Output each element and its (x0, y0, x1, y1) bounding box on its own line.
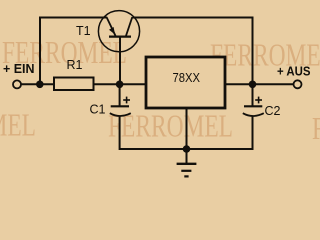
wire ground rail right / C2 lower lead (187, 116, 253, 150)
transistor T1 circle (98, 11, 139, 52)
wire top right segment (133, 18, 253, 85)
resistor R1 box (54, 78, 94, 91)
svg-text:T1: T1 (76, 24, 91, 38)
wire C2 upper lead (252, 84, 254, 106)
capacitor C1 curved plate (110, 113, 131, 116)
junction dot base/C1 (116, 81, 124, 89)
svg-text:C2: C2 (265, 104, 281, 118)
capacitor C1 top plate (111, 105, 129, 107)
svg-text:+ EIN: + EIN (3, 62, 35, 76)
terminal + AUS circle (294, 80, 302, 88)
transistor T1 emitter arrow (109, 27, 115, 35)
regulator U1 78XX box (146, 57, 225, 108)
junction dot input/R1 (36, 81, 44, 89)
wire C1 branch lower to ground rail (120, 116, 187, 150)
wire C1 branch upper (119, 84, 121, 106)
svg-text:+ AUS: + AUS (277, 65, 311, 79)
svg-text:78XX: 78XX (173, 71, 201, 85)
svg-text:FERROMEL: FERROMEL (0, 107, 36, 143)
junction dot output/C2 (249, 81, 257, 89)
capacitor C1 plus sign (123, 97, 130, 104)
ground symbol (177, 164, 197, 177)
terminal + EIN circle (13, 80, 21, 88)
svg-text:R1: R1 (67, 58, 83, 72)
svg-text:FERROMEL: FERROMEL (108, 108, 233, 144)
junction dot ground (183, 145, 191, 153)
transistor T1 collector line (126, 17, 132, 36)
wire top left segment (40, 18, 107, 85)
wire output rail (226, 83, 293, 85)
capacitor C2 curved plate (243, 113, 264, 116)
svg-text:FERROMEL: FERROMEL (312, 110, 320, 146)
capacitor C2 plus sign (255, 97, 262, 104)
wire transistor base lead (119, 37, 121, 84)
transistor T1 emitter line (107, 17, 116, 36)
wire ground stub (186, 149, 188, 163)
wire input rail (21, 83, 146, 85)
capacitor C2 top plate (244, 105, 262, 107)
wire regulator ground lead (186, 109, 188, 149)
transistor T1 base bar (109, 35, 131, 37)
svg-text:C1: C1 (90, 102, 106, 116)
